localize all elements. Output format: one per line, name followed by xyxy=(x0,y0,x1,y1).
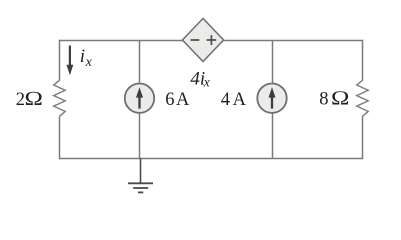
wire: 4A branch lower segment xyxy=(272,113,274,159)
arrow inside 6A source xyxy=(138,96,140,109)
svg-text:x: x xyxy=(203,75,210,90)
wire: 6A branch lower segment xyxy=(139,113,141,159)
wire: top rail left segment (node to diamond) xyxy=(59,40,184,42)
current arrow ix (downward) xyxy=(69,46,71,68)
svg-text:A: A xyxy=(233,90,247,110)
wire: left branch upper segment xyxy=(59,40,61,81)
svg-text:i: i xyxy=(80,46,85,67)
ground xyxy=(140,159,142,184)
svg-text:Ω: Ω xyxy=(24,88,43,110)
svg-text:6: 6 xyxy=(165,90,174,110)
wire: 6A branch upper segment xyxy=(139,40,141,84)
current source I1 6A circle xyxy=(125,84,154,113)
current source I2 4A circle xyxy=(257,84,286,113)
arrow inside 4A source xyxy=(271,96,273,109)
svg-text:Ω: Ω xyxy=(331,88,350,110)
wire: bottom rail xyxy=(59,158,363,160)
wire: 4A branch upper segment xyxy=(272,40,274,84)
svg-text:A: A xyxy=(176,90,190,110)
plus sign inside diamond xyxy=(207,39,217,41)
resistor R 2ohm zigzag xyxy=(54,80,65,116)
resistor R 8ohm zigzag xyxy=(357,80,369,116)
wire: top rail right segment (diamond to right node) xyxy=(223,40,364,42)
wire: left branch lower segment xyxy=(59,116,61,159)
dependent source U1 diamond 4ix xyxy=(182,18,223,61)
svg-text:x: x xyxy=(85,55,93,70)
minus sign inside diamond xyxy=(191,39,200,41)
svg-text:8: 8 xyxy=(319,90,328,110)
svg-text:4: 4 xyxy=(221,90,230,110)
wire: right branch lower segment xyxy=(362,116,364,159)
wire: right branch upper segment xyxy=(362,40,364,81)
